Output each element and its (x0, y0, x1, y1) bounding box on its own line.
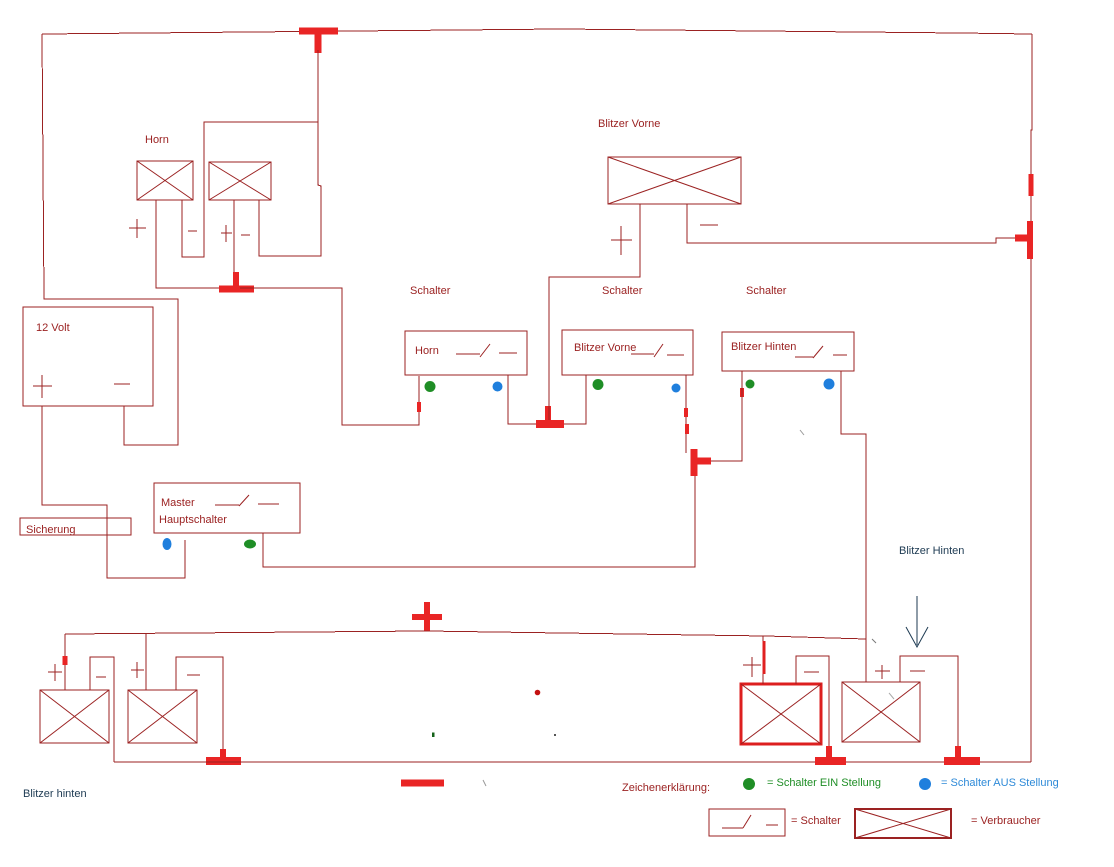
stray grey tick near legend (483, 780, 486, 786)
switch Master Hauptschalter box (154, 483, 300, 533)
svg-text:= Schalter: = Schalter (791, 815, 841, 827)
svg-text:Hauptschalter: Hauptschalter (159, 514, 227, 526)
svg-text:Schalter: Schalter (602, 285, 643, 297)
BH switch symbol (795, 346, 847, 358)
junction: thick red cross on lower bus (412, 602, 442, 631)
stray red dot (535, 690, 541, 696)
switch Blitzer Vorne box (562, 330, 693, 375)
junction: thick T on right border (1015, 221, 1031, 259)
minus sign rear L4 (910, 670, 925, 672)
bright tick on BH switch left wire (740, 388, 744, 397)
plus sign Blitzer Vorne lamp (611, 226, 632, 255)
bright segment on right border (1029, 174, 1034, 196)
svg-text:Blitzer Vorne: Blitzer Vorne (574, 342, 636, 354)
junction: thick T under horn lamps (219, 272, 254, 289)
junction: thick L at distribution node (694, 449, 711, 476)
svg-text:= Schalter AUS Stellung: = Schalter AUS Stellung (941, 777, 1059, 789)
wire: left border from top bus down to battery minus (42, 34, 178, 445)
wire: right border (1031, 34, 1032, 762)
minus sign rear L2 (187, 674, 200, 676)
battery plus sign (33, 375, 52, 398)
minus sign rear L3 (804, 671, 819, 673)
wire: BH switch right terminal down to rear lamp4 plus (841, 371, 866, 682)
plus sign rear L3 (743, 657, 761, 677)
svg-text:Horn: Horn (415, 345, 439, 357)
master switch EIN dot (green) (244, 540, 256, 549)
svg-text:Blitzer hinten: Blitzer hinten (23, 788, 87, 800)
stray grey tick above distribution junction (800, 430, 804, 435)
svg-text:12 Volt: 12 Volt (36, 322, 70, 334)
minus sign lamp L2 (241, 234, 250, 236)
wire: battery plus through fuse to master switch (42, 406, 185, 578)
BV switch symbol (631, 344, 684, 357)
wire: master switch output to distribution junction (263, 463, 695, 567)
lamp (Verbraucher) Horn L2 (209, 162, 271, 200)
wire: lamp L2 plus down to junction (233, 200, 235, 280)
annotation arrow (navy) (906, 596, 928, 647)
bright tick on lamp1 plus wire (63, 656, 68, 665)
legend switch symbol box (709, 809, 785, 836)
svg-text:Master: Master (161, 497, 195, 509)
wire: junction up to Blitzer Vorne lamp plus (549, 204, 640, 420)
wire: horn junction to horn switch left terminal (240, 288, 419, 425)
lamp (Verbraucher) rear L2 (128, 690, 197, 743)
legend thick red dash (401, 780, 444, 787)
legend Verbraucher box (855, 809, 951, 838)
lamp (Verbraucher) rear L3 - thick bright border (741, 684, 821, 744)
junction: thick T on ground bus (lamp2) (206, 749, 241, 762)
plus sign rear L4 (875, 665, 890, 679)
plus sign rear L2 (131, 662, 144, 678)
wire: lamp L1 plus down to junction (156, 200, 230, 288)
lamp (Verbraucher) rear L1 (40, 690, 109, 743)
switch Blitzer Hinten box (722, 332, 854, 371)
wire: rear lamp1 plus (64, 634, 66, 690)
BH switch EIN dot (green) (746, 380, 755, 389)
svg-text:Blitzer Hinten: Blitzer Hinten (899, 545, 964, 557)
wire: rear lamp3 plus (762, 636, 764, 684)
switch Horn box (405, 331, 527, 375)
svg-text:Horn: Horn (145, 134, 169, 146)
wire: rear lamp2 minus to ground bus (176, 657, 223, 750)
junction: thick T on ground bus (lamp4) (944, 746, 980, 762)
plus sign lamp L1 (129, 219, 146, 238)
wire: bottom ground bus (114, 761, 1031, 763)
svg-text:Blitzer Vorne: Blitzer Vorne (598, 118, 660, 130)
bright segment on lamp3 plus wire (763, 641, 766, 674)
stray grey tick near lower bus end (872, 639, 876, 643)
lamp (Verbraucher) Blitzer Vorne (608, 157, 741, 204)
wire: horn lamp1 minus loop up to feed line (182, 122, 318, 257)
wire: horn switch right terminal to BV switch left terminal (508, 375, 586, 424)
stray green dash (432, 733, 435, 738)
junction: thick T on ground bus (lamp3) (815, 746, 846, 762)
BV switch EIN dot (green) (593, 379, 604, 390)
svg-text:Schalter: Schalter (746, 285, 787, 297)
bright ticks on BV switch right wire (686, 408, 687, 434)
wire: top supply bus (42, 29, 1032, 34)
fuse Sicherung (20, 518, 131, 535)
stray dark speck (554, 734, 556, 736)
wire: rear lamp1 minus to ground bus (90, 657, 114, 762)
svg-text:Zeichenerklärung:: Zeichenerklärung: (622, 782, 710, 794)
svg-text:= Schalter EIN Stellung: = Schalter EIN Stellung (767, 777, 881, 789)
lamp (Verbraucher) Horn L1 (137, 161, 193, 200)
battery 12 Volt (23, 307, 153, 406)
horn switch symbol (456, 344, 517, 357)
junction: thick T under horn switch output (536, 406, 564, 424)
minus sign lamp L1 (188, 230, 197, 232)
horn switch AUS dot (blue) (493, 382, 503, 392)
svg-text:Sicherung: Sicherung (26, 524, 76, 536)
wire: rear lamp4 minus to ground bus (900, 656, 958, 748)
legend AUS dot (blue) (919, 778, 931, 790)
svg-text:Blitzer Hinten: Blitzer Hinten (731, 341, 796, 353)
horn switch EIN dot (green) (425, 381, 436, 392)
plus sign lamp L2 (221, 225, 232, 242)
wire: Blitzer Vorne lamp minus to right border (687, 204, 1030, 243)
master switch symbol (215, 495, 279, 506)
wire: rear lamp2 plus (145, 634, 147, 690)
junction: thick T on top bus (299, 31, 338, 53)
wire: BH switch left terminal to distribution junction (711, 371, 742, 461)
svg-text:Schalter: Schalter (410, 285, 451, 297)
lamp (Verbraucher) rear L4 (842, 682, 920, 742)
legend EIN dot (green) (743, 778, 755, 790)
BH switch AUS dot (blue) (824, 379, 835, 390)
wire: main feed from top T down to horn lamp2 minus (259, 50, 321, 256)
svg-text:= Verbraucher: = Verbraucher (971, 815, 1041, 827)
wire: BV switch right terminal down to distribution junction (685, 375, 687, 453)
legend switch symbol (722, 815, 778, 828)
wire: rear lamp3 minus to ground bus (796, 656, 829, 748)
wire: lower distribution bus (65, 631, 866, 639)
minus sign rear L1 (96, 676, 106, 678)
battery minus sign (114, 383, 130, 385)
plus sign rear L1 (48, 664, 62, 681)
BV switch AUS dot (blue) (672, 384, 681, 393)
bright tick on horn switch left wire (417, 402, 421, 412)
stray grey mark near lamp4 (889, 693, 894, 699)
master switch AUS dot (blue) (163, 538, 172, 550)
minus sign Blitzer Vorne lamp (700, 224, 718, 226)
